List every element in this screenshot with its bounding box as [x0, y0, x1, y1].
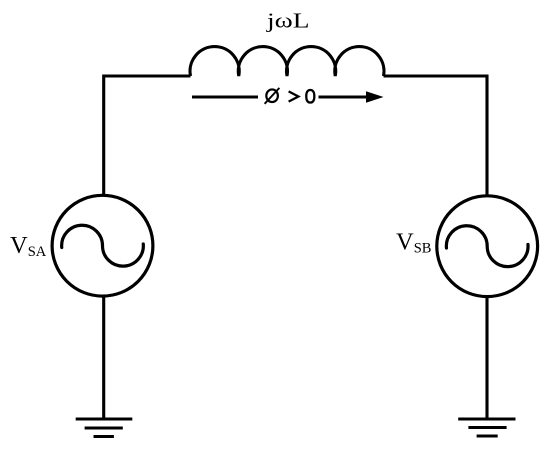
label zero [306, 90, 314, 103]
ground symbol right [458, 419, 515, 436]
wire: VSA bottom to ground [102, 296, 105, 420]
svg-text:jωL: jωL [266, 9, 310, 33]
AC source U2 sine symbol [446, 226, 528, 267]
AC source U1 (VSA) circle [52, 195, 153, 296]
current/power-flow arrow with label phi > 0 [192, 88, 384, 104]
ground symbol left [76, 419, 133, 437]
arrowhead [366, 91, 384, 102]
AC source U2 (VSB) circle [437, 196, 538, 297]
wire: arrow shaft left segment [192, 95, 258, 98]
wire: arrow shaft right segment [319, 95, 370, 98]
wire: VSB bottom to ground [485, 296, 488, 419]
label phi symbol [266, 89, 278, 102]
label greater-than [289, 91, 299, 101]
inductor L (jwL), 4 humps [190, 47, 384, 76]
AC source U1 sine symbol [62, 225, 144, 266]
wire: left top L-shape from source VSA up and right to inductor [104, 76, 191, 196]
wire: right top L-shape from inductor to source VSB [384, 76, 488, 197]
